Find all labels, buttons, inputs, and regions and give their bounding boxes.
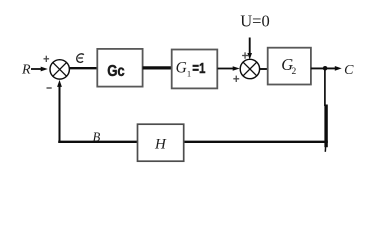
svg-text:H: H: [154, 137, 167, 153]
svg-text:2: 2: [292, 67, 297, 77]
svg-text:Gc: Gc: [107, 63, 125, 80]
svg-text:1: 1: [187, 69, 191, 79]
svg-text:B: B: [93, 130, 101, 144]
svg-text:C: C: [344, 63, 354, 78]
svg-text:=1: =1: [192, 60, 205, 77]
svg-text:R: R: [21, 63, 31, 78]
svg-text:G: G: [176, 60, 187, 77]
svg-text:U=0: U=0: [240, 11, 269, 30]
